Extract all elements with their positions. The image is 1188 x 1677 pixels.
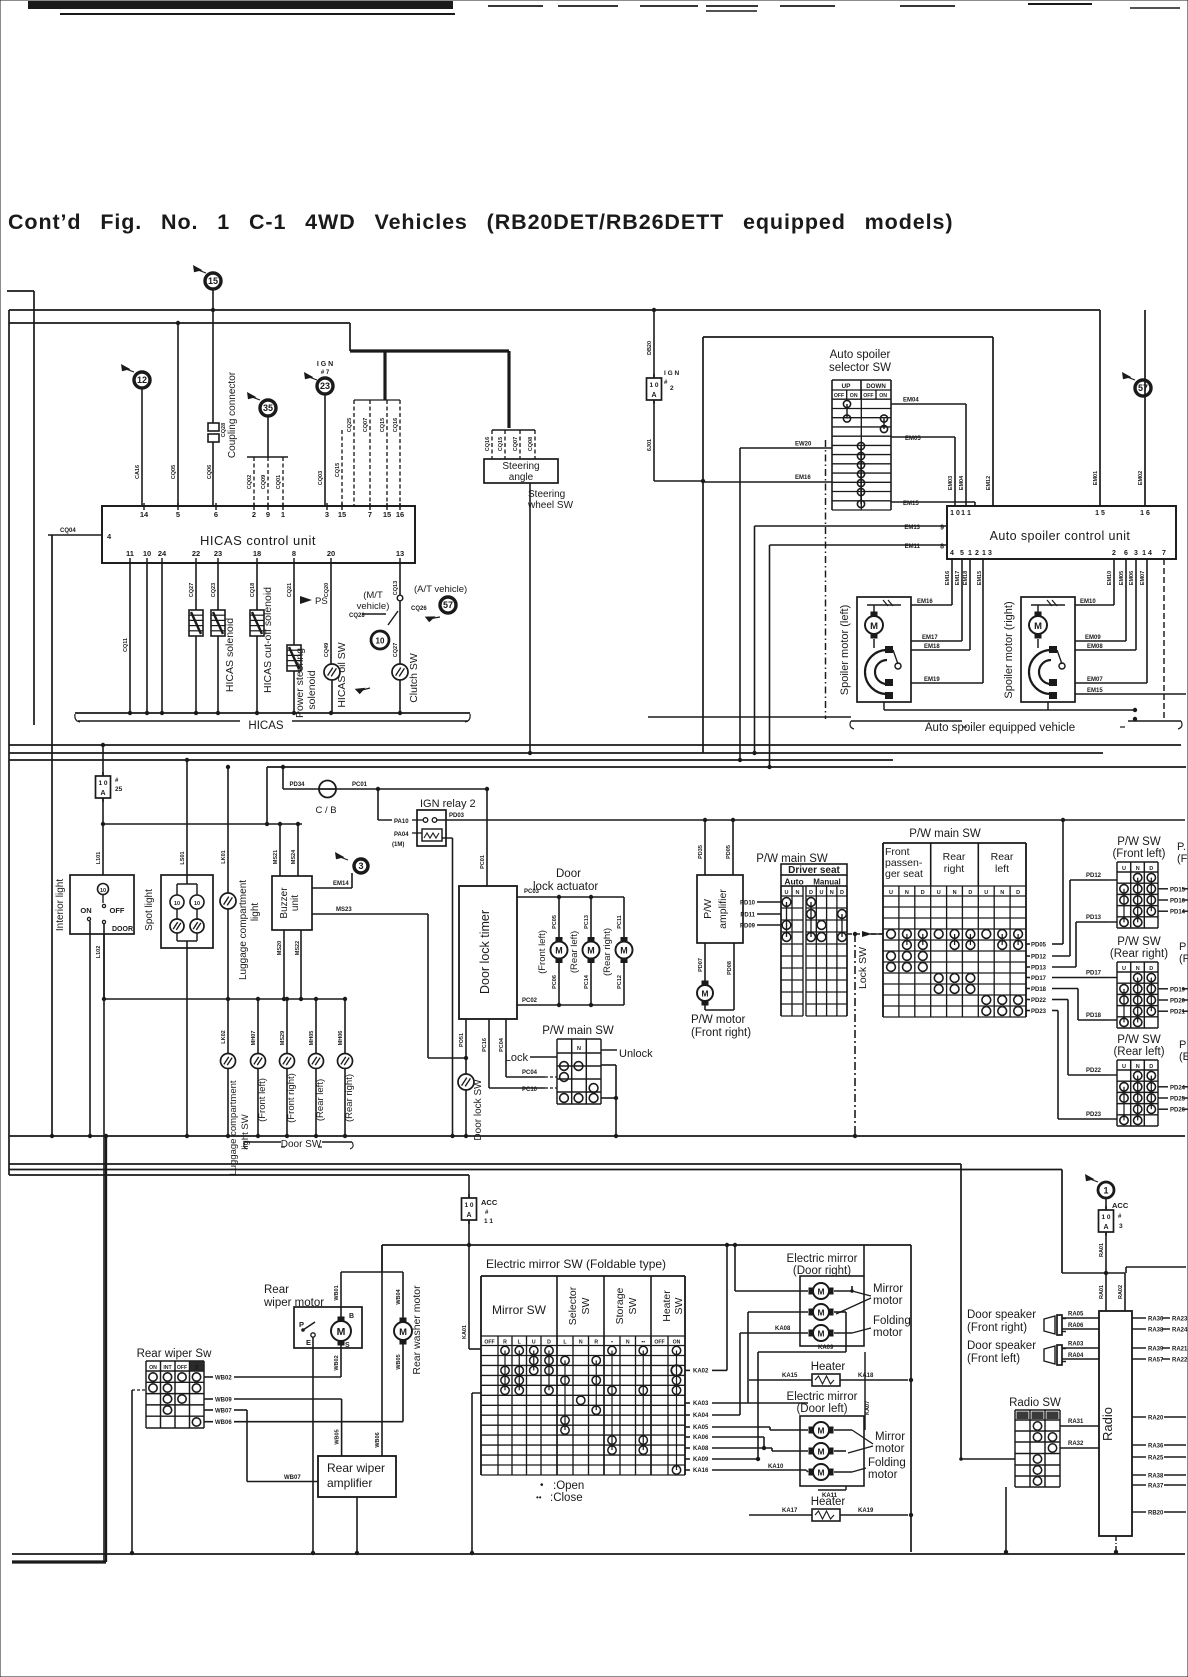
svg-text:HICAS solenoid: HICAS solenoid [224, 618, 236, 692]
svg-text:10: 10 [194, 901, 200, 907]
svg-text:(P: (P [1179, 953, 1188, 965]
svg-text:PD05: PD05 [1031, 943, 1047, 949]
svg-text:U: U [1122, 866, 1126, 872]
svg-text:••: •• [536, 1493, 542, 1502]
svg-text:selector SW: selector SW [829, 362, 891, 374]
svg-text:PC11: PC11 [617, 915, 623, 928]
svg-text:(Door right): (Door right) [793, 1265, 851, 1277]
svg-text:EM18: EM18 [924, 644, 940, 650]
svg-text:KA18: KA18 [858, 1373, 874, 1379]
svg-text:11: 11 [126, 549, 134, 558]
svg-text:PD17: PD17 [1086, 971, 1102, 977]
svg-text:PD11: PD11 [740, 913, 755, 919]
svg-text:CQ27: CQ27 [393, 643, 399, 657]
svg-text:PD23: PD23 [1031, 1009, 1047, 1015]
svg-text:P/W SW: P/W SW [1117, 836, 1161, 848]
svg-text:ON: ON [673, 1340, 681, 1346]
svg-text:SW: SW [673, 1297, 685, 1314]
svg-text:KA16: KA16 [693, 1468, 709, 1474]
svg-text:PC01: PC01 [480, 855, 486, 869]
svg-text:14: 14 [140, 510, 149, 519]
svg-text:KA05: KA05 [693, 1425, 709, 1431]
svg-text:Heater: Heater [661, 1290, 673, 1322]
svg-text:Interior light: Interior light [55, 879, 66, 931]
svg-text:WB07: WB07 [284, 1475, 301, 1481]
svg-text:RA36: RA36 [1148, 1444, 1164, 1450]
svg-text:CQ21: CQ21 [287, 583, 293, 597]
svg-text:Steering: Steering [528, 489, 565, 500]
svg-text:left: left [995, 863, 1009, 875]
svg-text:motor: motor [875, 1443, 905, 1455]
svg-text:RA01: RA01 [1099, 1243, 1105, 1257]
svg-text:C / B: C / B [315, 805, 336, 816]
svg-text:SW: SW [627, 1297, 639, 1314]
svg-text:13: 13 [396, 549, 404, 558]
svg-text:KA06: KA06 [693, 1435, 709, 1441]
svg-text:M: M [818, 1425, 825, 1435]
svg-text:#: # [1118, 1214, 1122, 1220]
svg-text:1 0: 1 0 [950, 510, 960, 517]
svg-text:(M/T: (M/T [363, 590, 383, 601]
svg-text:EM02: EM02 [1138, 471, 1144, 485]
svg-text:4: 4 [107, 532, 112, 541]
svg-text:23: 23 [320, 381, 330, 391]
svg-text:Door SW: Door SW [281, 1139, 322, 1150]
svg-text:PA10: PA10 [394, 819, 409, 825]
svg-text:P: P [1179, 941, 1186, 953]
svg-text:PC13: PC13 [584, 915, 590, 929]
svg-text:P.: P. [1177, 841, 1186, 853]
svg-text:RA24: RA24 [1172, 1328, 1188, 1334]
svg-text:OFF: OFF [834, 393, 844, 399]
svg-text:RA57: RA57 [1148, 1358, 1164, 1364]
svg-text:M: M [818, 1328, 825, 1338]
svg-text:WB09: WB09 [215, 1398, 232, 1404]
svg-text:(Front right): (Front right) [286, 1073, 297, 1123]
svg-text:lock actuator: lock actuator [533, 881, 598, 893]
svg-text:R: R [594, 1340, 598, 1346]
svg-text:2: 2 [252, 510, 256, 519]
svg-text:U: U [785, 890, 789, 896]
svg-text:Coupling connector: Coupling connector [227, 371, 238, 458]
svg-text:1 4: 1 4 [1142, 550, 1152, 557]
svg-text:EM04: EM04 [959, 475, 965, 490]
svg-text:HICAS control unit: HICAS control unit [200, 533, 316, 548]
svg-text:PS: PS [315, 596, 328, 607]
svg-text:Auto: Auto [784, 877, 803, 887]
svg-text:CQ16: CQ16 [393, 418, 399, 432]
svg-text:N: N [905, 890, 909, 896]
svg-text:7: 7 [1162, 550, 1166, 557]
svg-text:EW20: EW20 [795, 442, 812, 448]
svg-text:1: 1 [281, 510, 285, 519]
svg-text:(Front left): (Front left) [257, 1078, 268, 1122]
svg-text:A: A [1103, 1224, 1108, 1231]
svg-text:KA19: KA19 [858, 1508, 874, 1514]
svg-text:(A/T vehicle): (A/T vehicle) [414, 584, 467, 595]
svg-text:L102: L102 [96, 946, 102, 959]
svg-text:HICAS: HICAS [248, 720, 283, 732]
svg-text:CQ23: CQ23 [211, 583, 217, 597]
svg-text:E: E [306, 1338, 311, 1347]
svg-text:N: N [796, 890, 800, 896]
svg-text:3: 3 [1134, 550, 1138, 557]
svg-text:CQ04: CQ04 [60, 528, 76, 534]
svg-text:PC16: PC16 [482, 1038, 488, 1052]
svg-text:Driver seat: Driver seat [788, 865, 840, 876]
svg-text:Rear: Rear [264, 1284, 289, 1296]
svg-text:EM04: EM04 [903, 398, 919, 404]
svg-text:WB02: WB02 [215, 1376, 232, 1382]
svg-text::Open: :Open [553, 1480, 584, 1492]
svg-text:Radio SW: Radio SW [1009, 1397, 1061, 1409]
svg-text:PD13: PD13 [1086, 915, 1102, 921]
svg-text:PC14: PC14 [584, 974, 590, 989]
svg-text:D: D [1149, 866, 1153, 872]
svg-text:1 0: 1 0 [98, 780, 107, 787]
svg-text:EM12: EM12 [986, 476, 992, 490]
svg-text:MS29: MS29 [280, 1031, 286, 1045]
svg-text:vehicle): vehicle) [357, 601, 390, 612]
svg-text:MH05: MH05 [309, 1031, 315, 1046]
svg-text:KA01: KA01 [462, 1325, 468, 1339]
svg-text:A: A [651, 392, 656, 399]
svg-text:MS20: MS20 [277, 941, 283, 955]
svg-text:4: 4 [950, 550, 954, 557]
svg-text:DOOR: DOOR [112, 926, 133, 933]
svg-text:Steering: Steering [502, 461, 539, 472]
svg-text:2: 2 [670, 385, 674, 392]
svg-text:M: M [337, 1326, 346, 1338]
svg-text:P/W main SW: P/W main SW [542, 1025, 614, 1037]
svg-text:EM03: EM03 [948, 476, 954, 490]
svg-text:P/W SW: P/W SW [1117, 936, 1161, 948]
svg-text:motor: motor [873, 1327, 903, 1339]
svg-text:Spot light: Spot light [144, 889, 155, 931]
svg-text:PD12: PD12 [1031, 955, 1047, 961]
svg-text:RA37: RA37 [1148, 1484, 1164, 1490]
svg-text:RA20: RA20 [1148, 1416, 1164, 1422]
svg-text:WB07: WB07 [215, 1409, 232, 1415]
svg-text:22: 22 [192, 549, 200, 558]
svg-text:#: # [664, 380, 668, 386]
svg-text:PD23: PD23 [1086, 1112, 1102, 1118]
svg-text:10: 10 [143, 549, 151, 558]
svg-text:R: R [503, 1340, 507, 1346]
svg-text:Spoiler motor (left): Spoiler motor (left) [839, 605, 851, 695]
svg-text:M: M [818, 1467, 825, 1477]
svg-text:PD10: PD10 [740, 901, 756, 907]
svg-text:RA39: RA39 [1148, 1347, 1164, 1353]
svg-text:KA09: KA09 [693, 1457, 709, 1463]
svg-text:PD22: PD22 [1031, 998, 1047, 1004]
svg-text:PD18: PD18 [1086, 1013, 1102, 1019]
svg-text:RA03: RA03 [1068, 1342, 1084, 1348]
svg-text:P/W: P/W [702, 899, 714, 919]
svg-text:PD05: PD05 [726, 845, 732, 859]
svg-text:KA03: KA03 [693, 1401, 709, 1407]
svg-text:Rear: Rear [991, 851, 1014, 863]
svg-text:PA04: PA04 [394, 832, 409, 838]
svg-text:Lock SW: Lock SW [857, 947, 869, 989]
svg-text:A: A [100, 790, 105, 797]
svg-text:EM14: EM14 [333, 881, 349, 887]
svg-text:CQ15: CQ15 [380, 418, 386, 432]
svg-text:Mirror SW: Mirror SW [492, 1303, 547, 1317]
svg-text:WB05: WB05 [396, 1354, 402, 1369]
svg-text:CQ13: CQ13 [393, 581, 399, 595]
svg-text:CQ07: CQ07 [513, 437, 519, 451]
svg-text:M: M [818, 1286, 825, 1296]
svg-text:(Rear right): (Rear right) [602, 928, 613, 976]
svg-text:ON: ON [850, 393, 858, 399]
svg-text:Auto spoiler control unit: Auto spoiler control unit [990, 529, 1131, 543]
svg-text:U: U [984, 890, 988, 896]
svg-text:M: M [620, 946, 627, 956]
svg-text:D: D [809, 890, 813, 896]
svg-text:S: S [345, 1342, 350, 1349]
svg-text:I G N: I G N [664, 370, 679, 377]
svg-text:1 1: 1 1 [961, 510, 971, 517]
svg-text:unit: unit [290, 895, 301, 911]
svg-text:#: # [115, 778, 119, 784]
svg-text:EM15: EM15 [903, 501, 919, 507]
svg-text:(Front left): (Front left) [1112, 848, 1165, 860]
svg-text:HICAS cut-off solenoid: HICAS cut-off solenoid [262, 587, 274, 693]
svg-text:EM09: EM09 [1085, 635, 1101, 641]
svg-text:CQ15: CQ15 [498, 437, 504, 451]
svg-text:15: 15 [383, 510, 391, 519]
svg-text:P/W main SW: P/W main SW [756, 853, 828, 865]
svg-text:(Front left): (Front left) [537, 930, 548, 974]
svg-text:10: 10 [100, 888, 106, 894]
svg-text:KA07: KA07 [865, 1401, 871, 1415]
svg-text:Rear wiper: Rear wiper [327, 1461, 385, 1475]
svg-text:1 0: 1 0 [649, 382, 658, 389]
svg-text:CQ16: CQ16 [485, 437, 491, 451]
svg-text:light SW: light SW [240, 1114, 251, 1149]
svg-text:Heater: Heater [811, 1496, 846, 1508]
svg-text:PC04: PC04 [522, 1070, 538, 1076]
svg-text:U: U [532, 1340, 536, 1346]
svg-text:P: P [299, 1320, 304, 1329]
svg-text:3: 3 [988, 550, 992, 557]
svg-text:ACC: ACC [481, 1198, 498, 1207]
svg-text:EM16: EM16 [945, 571, 951, 585]
svg-text:#: # [485, 1210, 489, 1216]
svg-text:Storage: Storage [614, 1287, 626, 1324]
svg-text:5: 5 [176, 510, 180, 519]
svg-text:N: N [579, 1340, 583, 1346]
svg-text:HICAS oil SW: HICAS oil SW [336, 642, 348, 707]
svg-text:PD03: PD03 [449, 813, 465, 819]
svg-text:Folding: Folding [868, 1457, 906, 1469]
svg-text:right: right [944, 863, 965, 875]
svg-text:(F: (F [1177, 853, 1188, 865]
svg-text:(Front left): (Front left) [967, 1353, 1020, 1365]
svg-text:Electric mirror SW (Foldable t: Electric mirror SW (Foldable type) [486, 1257, 666, 1271]
svg-text:N: N [1136, 1064, 1140, 1070]
svg-text:(Rear right): (Rear right) [1110, 948, 1168, 960]
svg-text:PC12: PC12 [617, 975, 623, 989]
svg-text:MH06: MH06 [338, 1031, 344, 1046]
svg-text:UP: UP [841, 383, 851, 390]
svg-text:M: M [587, 946, 594, 956]
svg-text:CQ27: CQ27 [189, 583, 195, 597]
svg-text:35: 35 [263, 403, 273, 413]
svg-text:amplifier: amplifier [717, 889, 729, 929]
svg-text:D: D [1016, 890, 1020, 896]
svg-text:2: 2 [975, 550, 979, 557]
svg-text:EM10: EM10 [1107, 571, 1113, 585]
svg-text:motor: motor [873, 1295, 903, 1307]
svg-text:3: 3 [1119, 1223, 1123, 1230]
svg-text:U: U [820, 890, 824, 896]
svg-text:B: B [349, 1313, 354, 1320]
svg-text:Lock: Lock [505, 1052, 529, 1064]
svg-text:CA16: CA16 [135, 465, 141, 479]
svg-text:PD35: PD35 [698, 845, 704, 859]
svg-text:MH07: MH07 [251, 1031, 257, 1046]
svg-text:PC01: PC01 [352, 782, 368, 788]
svg-text:6J01: 6J01 [647, 439, 653, 451]
svg-text:EM05: EM05 [1119, 571, 1125, 585]
svg-text:EM16: EM16 [917, 599, 933, 605]
svg-text:PD34: PD34 [289, 782, 305, 788]
svg-text:# 7: # 7 [321, 370, 330, 376]
svg-text:LK02: LK02 [221, 1030, 227, 1043]
svg-text:16: 16 [396, 510, 404, 519]
svg-text:N: N [626, 1340, 630, 1346]
svg-text:EM08: EM08 [1087, 644, 1103, 650]
svg-text:(Front right): (Front right) [691, 1027, 751, 1039]
svg-text:OFF: OFF [484, 1340, 494, 1346]
svg-text:Electric mirror: Electric mirror [787, 1391, 858, 1403]
svg-text:1: 1 [968, 550, 972, 557]
svg-text:PC05: PC05 [552, 915, 558, 929]
svg-text:Spoiler motor (right): Spoiler motor (right) [1003, 601, 1015, 698]
svg-text:WB04: WB04 [396, 1288, 402, 1304]
svg-text:I G N: I G N [317, 361, 333, 368]
svg-text:CQ26: CQ26 [411, 606, 427, 612]
svg-text:3: 3 [358, 861, 363, 871]
svg-text:CQ07: CQ07 [363, 418, 369, 432]
svg-text:RA05: RA05 [1068, 1312, 1084, 1318]
svg-text:U: U [889, 890, 893, 896]
svg-text:Heater: Heater [811, 1361, 846, 1373]
svg-text:Door: Door [556, 868, 581, 880]
svg-text:L: L [563, 1340, 567, 1346]
svg-text:(Rear left): (Rear left) [569, 931, 580, 973]
svg-text:solenoid: solenoid [306, 670, 318, 709]
svg-text:Luggage compartment: Luggage compartment [238, 880, 249, 980]
svg-text:PC10: PC10 [522, 1087, 538, 1093]
svg-text:DOWN: DOWN [866, 383, 886, 390]
svg-text:EM01: EM01 [1093, 471, 1099, 485]
svg-text:3: 3 [325, 510, 329, 519]
svg-text:CQ25: CQ25 [347, 418, 353, 432]
svg-text:Manual: Manual [813, 878, 841, 887]
svg-text:(Rear left): (Rear left) [315, 1079, 326, 1121]
svg-text:M: M [555, 946, 562, 956]
svg-text:SW: SW [580, 1297, 592, 1314]
svg-text:KA15: KA15 [782, 1373, 798, 1379]
svg-text:•: • [611, 1340, 613, 1346]
svg-text:PD07: PD07 [698, 958, 704, 972]
svg-text:8: 8 [292, 549, 296, 558]
svg-text:amplifier: amplifier [327, 1476, 372, 1490]
svg-text:ON: ON [149, 1365, 157, 1371]
svg-text:EM06: EM06 [1129, 571, 1135, 585]
svg-text:Rear wiper Sw: Rear wiper Sw [137, 1348, 212, 1360]
svg-text:CQ11: CQ11 [123, 638, 129, 652]
svg-text:12: 12 [137, 375, 147, 385]
svg-text:EM19: EM19 [924, 677, 940, 683]
svg-text:EM17: EM17 [922, 635, 938, 641]
svg-text:D: D [921, 890, 925, 896]
svg-text:MS23: MS23 [336, 907, 352, 913]
svg-text:KA17: KA17 [782, 1508, 798, 1514]
svg-text:Unlock: Unlock [619, 1048, 653, 1060]
svg-text:7: 7 [368, 510, 372, 519]
svg-text:U: U [1122, 966, 1126, 972]
svg-text:M: M [870, 621, 878, 632]
svg-text:IGN relay 2: IGN relay 2 [420, 798, 476, 810]
svg-text:ger seat: ger seat [885, 868, 923, 880]
svg-text:CQ03: CQ03 [318, 471, 324, 485]
svg-text:RA04: RA04 [1068, 1353, 1084, 1359]
svg-text:EM15: EM15 [1087, 688, 1103, 694]
svg-text:10: 10 [174, 901, 180, 907]
svg-text:EM07: EM07 [1140, 571, 1146, 585]
svg-text:PC06: PC06 [552, 975, 558, 989]
svg-text:ON: ON [879, 393, 887, 399]
svg-text:PC02: PC02 [522, 998, 538, 1004]
svg-text:RB20: RB20 [1148, 1511, 1164, 1517]
svg-text:15: 15 [338, 510, 346, 519]
svg-text:WB05: WB05 [335, 1429, 341, 1444]
svg-text:9: 9 [266, 510, 270, 519]
svg-text:(Door left): (Door left) [796, 1403, 847, 1415]
svg-text:RA22: RA22 [1172, 1358, 1188, 1364]
svg-text:WB01: WB01 [334, 1285, 340, 1300]
svg-text:25: 25 [115, 786, 123, 793]
svg-text:LS01: LS01 [180, 851, 186, 864]
svg-text:(Front right): (Front right) [967, 1322, 1027, 1334]
svg-text:WB06: WB06 [375, 1432, 381, 1447]
svg-text:15: 15 [208, 276, 218, 286]
svg-text:PD13: PD13 [1031, 966, 1047, 972]
svg-text:CQ49: CQ49 [324, 643, 330, 657]
svg-text:Mirror: Mirror [873, 1283, 903, 1295]
svg-text:PD09: PD09 [740, 924, 756, 930]
svg-text:KA09: KA09 [818, 1345, 834, 1351]
svg-text:EM16: EM16 [795, 475, 811, 481]
svg-text:EM17: EM17 [955, 571, 961, 585]
svg-text:MS21: MS21 [273, 850, 279, 864]
svg-text:KA04: KA04 [693, 1413, 709, 1419]
svg-text:CQ02: CQ02 [247, 475, 253, 489]
svg-text:5: 5 [960, 550, 964, 557]
svg-text:RA01: RA01 [1099, 1285, 1105, 1299]
svg-text:CQ09: CQ09 [261, 475, 267, 489]
svg-text:Auto spoiler: Auto spoiler [830, 349, 891, 361]
svg-text:Door lock timer: Door lock timer [478, 910, 492, 994]
svg-text:RA25: RA25 [1148, 1456, 1164, 1462]
svg-text:PC03: PC03 [524, 889, 540, 895]
svg-text:KA10: KA10 [768, 1464, 784, 1470]
svg-text:RA38: RA38 [1148, 1474, 1164, 1480]
